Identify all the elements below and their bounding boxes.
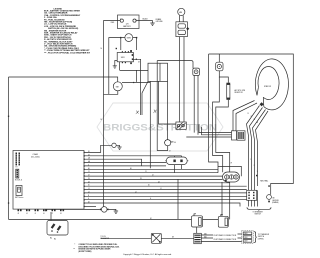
rectifier BCR wire box [142, 63, 168, 115]
terminal strip TS [194, 233, 202, 243]
stator leads to SB [233, 101, 268, 191]
wires BCR bottom [149, 81, 151, 168]
notes [74, 243, 120, 253]
svg-text:GROUND: GROUND [272, 200, 280, 202]
svg-text:SWITCH: SWITCH [258, 236, 265, 238]
svg-text:*** - PLUG FOR OPTIONAL COLD W: *** - PLUG FOR OPTIONAL COLD WEATHER KIT [44, 51, 91, 54]
LOS module comp [112, 143, 122, 149]
CSA1 right edge pins [84, 152, 85, 207]
svg-text:18: 18 [138, 62, 140, 64]
oil switch comp2 [216, 62, 223, 71]
svg-text:66: 66 [88, 168, 90, 170]
svg-text:62: 62 [88, 202, 90, 204]
svg-text:+: + [120, 18, 121, 20]
receptacle 120/240V [223, 172, 240, 182]
svg-text:67: 67 [169, 150, 171, 152]
battery B1 [118, 15, 140, 29]
wire branch down at x178 [177, 179, 179, 219]
brace transfer switch [254, 232, 256, 243]
wire long bottom [9, 218, 219, 220]
svg-text:SWITCH: SWITCH [255, 214, 262, 216]
svg-text:11: 11 [248, 113, 250, 115]
ground bond GB [267, 185, 280, 204]
svg-text:P2: P2 [16, 166, 18, 168]
svg-text:CUSTOMER CONNECTION: CUSTOMER CONNECTION [213, 239, 237, 241]
connector oval P3 [165, 156, 188, 173]
wires receptacle bottom [222, 182, 230, 219]
svg-text:GB: GB [272, 198, 274, 200]
svg-text:16: 16 [101, 48, 103, 50]
connector J1 [17, 170, 19, 178]
svg-text:Copyright © Briggs & Stratton,: Copyright © Briggs & Stratton, LLC. All … [123, 253, 172, 256]
svg-text:(GC-1032): (GC-1032) [31, 157, 40, 159]
fuel comp A [192, 214, 203, 227]
svg-text:TO LPG: TO LPG [101, 236, 106, 238]
svg-text:22: 22 [251, 116, 253, 118]
svg-text:(EXCEPT WIRE): (EXCEPT WIRE) [79, 251, 92, 253]
ground after fuse [114, 211, 118, 213]
svg-text:22: 22 [88, 175, 90, 177]
wire battery positive RED [104, 21, 121, 207]
starter motor SM [113, 82, 122, 91]
alternator SB block [232, 131, 246, 140]
svg-text:00: 00 [88, 185, 90, 187]
svg-text:11: 11 [88, 171, 90, 173]
svg-text:RESISTOR: RESISTOR [235, 92, 244, 94]
brace TO BREAKER SWITCH [247, 207, 271, 210]
wire X-plug right [161, 237, 194, 239]
svg-text:18: 18 [88, 154, 90, 156]
svg-text:(OPEN): (OPEN) [258, 238, 264, 240]
svg-text:J7: J7 [52, 213, 54, 215]
svg-text:SSW: SSW [127, 38, 131, 40]
fuel comp B [218, 215, 228, 228]
stator [255, 59, 288, 110]
plug P1 propane [47, 212, 68, 240]
svg-text:BATTERY: BATTERY [123, 25, 132, 28]
svg-text:L1: L1 [88, 188, 90, 190]
svg-text:66: 66 [130, 168, 132, 170]
svg-text:J4: J4 [26, 213, 28, 215]
svg-text:NEUTRAL: NEUTRAL [260, 179, 268, 182]
svg-text:120V: 120V [244, 237, 248, 239]
svg-text:66: 66 [174, 142, 176, 144]
svg-text:J6: J6 [43, 213, 45, 215]
label NEUTRAL [256, 175, 258, 177]
fuel solenoid circle comp1 [193, 68, 200, 75]
svg-text:N: N [88, 195, 89, 197]
svg-text:J5: J5 [35, 213, 37, 215]
svg-text:L2: L2 [135, 191, 137, 193]
wire fuse to middle [179, 37, 181, 123]
wire battery cable to SM [9, 77, 118, 82]
stator junction diamond [260, 102, 264, 106]
CSA1 bottom connectors [18, 209, 65, 211]
panel left verticals [209, 54, 218, 173]
legend [44, 8, 91, 54]
svg-text:STATOR: STATOR [264, 85, 272, 88]
svg-text:120V: 120V [244, 241, 248, 243]
svg-text:CUSTOMER CONNECTION: CUSTOMER CONNECTION [213, 235, 237, 237]
stator lead labels [248, 113, 259, 124]
wire battery negative BLACK [136, 21, 152, 23]
svg-text:44: 44 [257, 122, 259, 124]
wire SM bottom branch [104, 91, 118, 95]
svg-text:HM: HM [179, 12, 182, 14]
wire loop to solenoid [157, 61, 193, 69]
wire SSR output right [133, 59, 140, 115]
svg-text:J3: J3 [18, 213, 20, 215]
hatched connector CX [176, 122, 186, 129]
watermark Briggs & Stratton logo [97, 103, 223, 151]
svg-text:00: 00 [148, 185, 150, 187]
svg-text:16: 16 [101, 119, 103, 121]
svg-text:SET Device: SET Device [15, 197, 23, 199]
svg-text:CSA1: CSA1 [33, 153, 39, 156]
svg-text:44: 44 [88, 181, 90, 183]
note marker sparkles [136, 110, 157, 114]
svg-text:SM: SM [116, 86, 119, 88]
wire bundle SB to left [186, 125, 231, 138]
wires CC to breaker box [213, 234, 242, 242]
TB terminal block [247, 190, 257, 200]
wires comp1 down [194, 76, 198, 135]
svg-text:33: 33 [254, 119, 256, 121]
hour meter HM [178, 8, 185, 22]
svg-text:11: 11 [145, 171, 147, 173]
wire branch down x196.7 [196, 219, 198, 233]
svg-text:L1: L1 [160, 188, 162, 190]
fuel solenoid FS2 circle [157, 139, 176, 152]
keyswitch SSW [109, 34, 137, 95]
frame ground symbol [150, 23, 154, 25]
svg-text:L2: L2 [88, 191, 90, 193]
connector P2 [16, 153, 21, 166]
CSA1 output wires [85, 145, 247, 206]
svg-text:22: 22 [152, 175, 154, 177]
svg-text:44: 44 [158, 181, 160, 183]
wire micro labels [88, 48, 258, 238]
SSR ground [113, 61, 118, 69]
X-plug comp [151, 233, 161, 243]
svg-text:J8: J8 [60, 213, 62, 215]
wire SSR to junction (bottom) [120, 62, 149, 71]
fuse F main [46, 207, 116, 213]
svg-text:33: 33 [140, 178, 142, 180]
wires TB down to brace [249, 190, 258, 206]
wire SM to right [122, 82, 150, 84]
starter solenoid relay SSR [116, 48, 134, 64]
wires TS right [201, 235, 213, 242]
wire SM loop left side [8, 77, 10, 219]
breaker dashed box [242, 230, 254, 243]
wire X-plug left [101, 237, 152, 239]
svg-text:ROCW J1: ROCW J1 [15, 180, 22, 182]
resistor R [226, 83, 230, 100]
svg-text:56: 56 [88, 151, 90, 153]
dip switch SW [15, 186, 23, 200]
svg-text:GROUND: GROUND [156, 21, 164, 23]
panel top wire [209, 54, 294, 195]
CSA1 control assembly [13, 151, 84, 210]
svg-text:240V: 240V [244, 233, 248, 235]
svg-text:33: 33 [88, 178, 90, 180]
fuse holder F1 F2 [176, 22, 189, 37]
